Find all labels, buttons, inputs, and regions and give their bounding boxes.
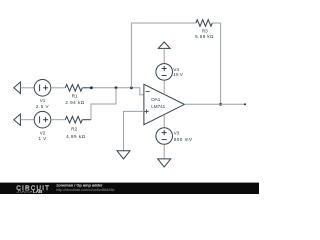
svg-text:V2: V2 [40, 131, 46, 136]
wire to inverting input [140, 88, 144, 95]
ground [158, 159, 171, 167]
svg-text:1 V: 1 V [38, 136, 47, 141]
wire [51, 119, 66, 121]
output endpoint [244, 103, 246, 105]
logo arrow mark [31, 191, 33, 193]
svg-text:V3: V3 [174, 131, 180, 136]
input port P1 [14, 82, 21, 94]
junction [90, 86, 93, 89]
wire [163, 115, 165, 128]
ground [117, 151, 130, 159]
svg-text:http://circuitlab.com/c2rw5zd5: http://circuitlab.com/c2rw5zd5kk38x [56, 188, 114, 192]
wire [20, 87, 34, 89]
voltage source V4 [156, 64, 184, 81]
svg-text:2.94 kΩ: 2.94 kΩ [65, 100, 85, 105]
svg-text:2.5 V: 2.5 V [36, 104, 50, 109]
voltage source V3 [156, 128, 193, 145]
voltage source V2 [34, 111, 51, 141]
wire R2 to node [91, 88, 116, 120]
junction [219, 103, 222, 106]
svg-text:15 V: 15 V [173, 72, 183, 77]
wire feedback down [220, 23, 222, 104]
svg-text:500 mV: 500 mV [174, 137, 193, 142]
wire [51, 87, 66, 89]
footer bar [0, 183, 259, 194]
svg-text:V1: V1 [40, 98, 46, 103]
svg-text:4.99 kΩ: 4.99 kΩ [66, 134, 86, 139]
junction [115, 86, 118, 89]
wire [163, 144, 165, 159]
wire feedback [131, 23, 196, 88]
VCC arrow [158, 42, 170, 48]
resistor R1 [65, 85, 91, 106]
resistor R2 [65, 116, 91, 138]
resistor R3 [195, 20, 220, 40]
input port P2 [14, 114, 21, 126]
voltage source V1 [34, 80, 51, 110]
svg-text:OA1: OA1 [151, 97, 161, 102]
wire output [184, 103, 245, 105]
logo waveform [17, 191, 30, 193]
svg-text:R2: R2 [71, 127, 77, 132]
svg-text:R3: R3 [202, 29, 208, 34]
wire [20, 119, 34, 121]
svg-text:zoneman / Op amp adder: zoneman / Op amp adder [56, 182, 103, 187]
svg-text:5.59 kΩ: 5.59 kΩ [195, 34, 214, 39]
junction [130, 86, 133, 89]
svg-text:LM741: LM741 [151, 104, 165, 109]
op-amp OA1 [144, 84, 185, 124]
svg-text:LAB: LAB [33, 189, 43, 194]
wire summing node [91, 87, 139, 89]
svg-text:R1: R1 [72, 93, 78, 98]
wire [163, 48, 165, 63]
wire non-inverting input to ground [124, 111, 144, 150]
wire [163, 80, 165, 94]
